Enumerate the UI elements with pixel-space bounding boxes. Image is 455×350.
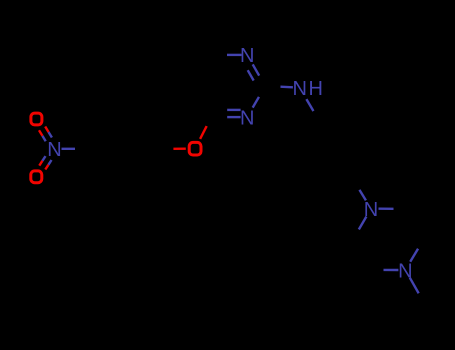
nitrophenyl bond C5-C6 [107, 178, 142, 180]
pyrimidine double bond C4=N3 inner [227, 109, 241, 111]
pyrimidine bond N1-C6 [227, 54, 242, 56]
pyrimidine double bond C6=C5 [193, 55, 211, 86]
bond C aryl-O ether [173, 147, 186, 150]
atom label O nitro top [31, 113, 42, 125]
piperazine bond C5-C6 [353, 239, 370, 270]
nitrophenyl bond C3-C4 [142, 119, 160, 149]
atom label O ether [189, 142, 201, 155]
pyrimidine double bond C4=N3 main [227, 116, 241, 118]
bond NH-C1 phenyl [306, 99, 313, 111]
piperazine bond C2-C3 [406, 209, 423, 240]
double bond N=O nitro top [49, 132, 52, 138]
pyrimidine bond N3-C2 [253, 97, 259, 108]
atom label O nitro bottom [31, 171, 42, 183]
phenyl bond C5-C6 [300, 149, 318, 179]
phenyl double bond C2=C3 [353, 118, 371, 148]
double bond N=O nitro bottom [42, 156, 45, 161]
nitrophenyl bond C1-C2 [90, 119, 108, 149]
nitrophenyl double bond C4=C5 [142, 149, 160, 179]
bond O ether-C4 pyrimidine [200, 126, 207, 139]
nitrophenyl double bond C6=C1 [90, 149, 108, 179]
svg-text:N: N [240, 107, 254, 129]
phenyl bond C1-C2 [318, 117, 353, 119]
piperazine bond N4-C5 [383, 269, 398, 272]
pyrimidine double bond N1=C2 inner [248, 70, 254, 80]
piperazine bond C3-N4 [410, 249, 418, 262]
phenyl double bond C4=C5 [318, 178, 353, 180]
pyrimidine double bond N1=C2 main [253, 64, 260, 75]
svg-text:N: N [47, 139, 61, 161]
bond C4 phenyl-N1 piperazine [359, 190, 366, 201]
phenyl double bond C6=C1 [300, 118, 318, 148]
pyrimidine bond C5-C4 [193, 86, 211, 117]
bond N4-CH3 methyl [410, 278, 419, 294]
svg-text:NH: NH [293, 78, 325, 100]
piperazine bond C6-N1 [359, 217, 367, 230]
bond C2-NH amine [280, 85, 293, 88]
nitrophenyl double bond C2=C3 [107, 117, 142, 119]
svg-text:N: N [240, 45, 254, 67]
phenyl bond C3-C4 [353, 149, 371, 179]
bond Nnitro-C1 nitrophenyl [62, 148, 76, 150]
piperazine bond N1-C2 [379, 207, 394, 210]
